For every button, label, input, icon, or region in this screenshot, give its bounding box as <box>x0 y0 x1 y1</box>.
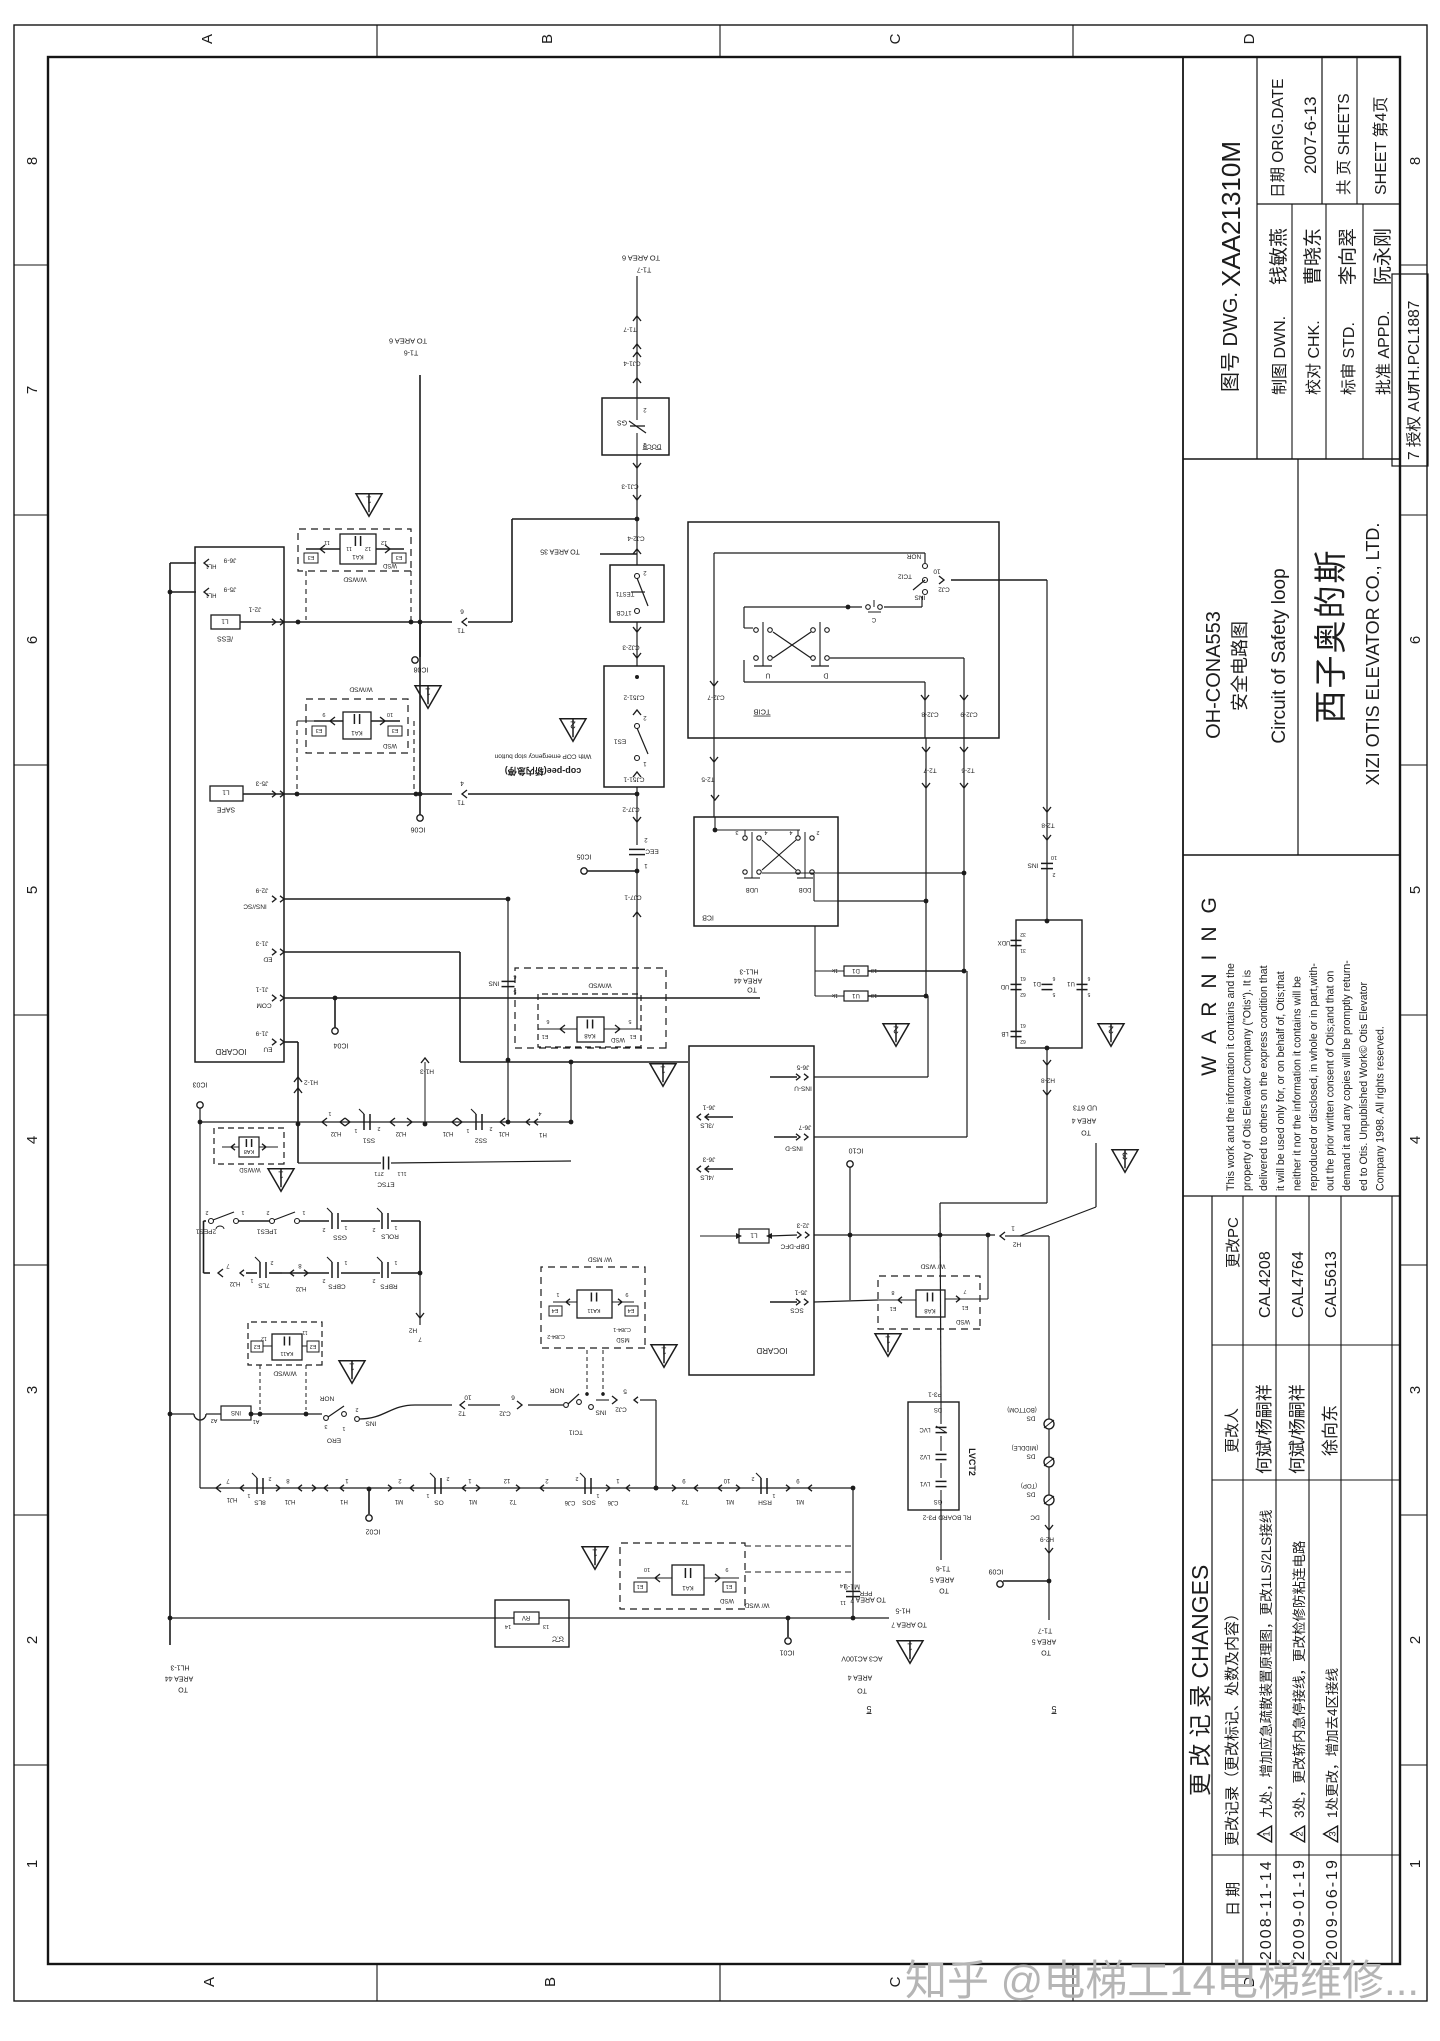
svg-text:ed to Otis. Unpublished W: ed to Otis. Unpublished Work© Otis Eleva… <box>1358 982 1370 1191</box>
relay KA1 grp2 pins E3 <box>314 720 343 722</box>
svg-text:5: 5 <box>623 1388 627 1395</box>
svg-text:E3: E3 <box>396 554 403 560</box>
svg-text:DS: DS <box>1026 1491 1036 1498</box>
svg-text:61: 61 <box>1020 1022 1026 1028</box>
connector 8 HJ1 <box>276 1485 280 1491</box>
wire bus to IOCARD2 <box>570 1062 572 1122</box>
svg-text:IC09: IC09 <box>989 1568 1004 1575</box>
svg-text:5: 5 <box>1087 991 1090 997</box>
svg-text:1: 1 <box>885 1334 891 1346</box>
connector 1 H1 <box>340 1485 344 1491</box>
svg-text:IC06: IC06 <box>411 826 426 833</box>
svg-text:CAL5613: CAL5613 <box>1323 1251 1340 1318</box>
svg-text:6: 6 <box>24 636 41 644</box>
warning triangle 1 (ac3) <box>897 1641 923 1664</box>
svg-text:ED: ED <box>263 956 272 963</box>
svg-text:KA1: KA1 <box>352 553 364 559</box>
svg-text:12: 12 <box>503 1477 510 1483</box>
svg-text:10: 10 <box>387 711 393 717</box>
svg-text:D1: D1 <box>852 967 860 973</box>
wire INS-U <box>814 1076 928 1078</box>
wire TCIB left CJ2-7 <box>713 553 715 738</box>
svg-text:D1: D1 <box>1033 980 1041 986</box>
svg-text:E4: E4 <box>552 1307 559 1313</box>
wire INS-D <box>814 1136 967 1138</box>
svg-text:TO AREA 6: TO AREA 6 <box>389 336 427 345</box>
terminal IC02 <box>368 1489 370 1514</box>
svg-text:H1-2: H1-2 <box>304 1079 318 1086</box>
wire to TO AREA 5 T1-7 <box>1048 1581 1050 1620</box>
svg-text:5: 5 <box>866 1704 871 1714</box>
wire T2-8 drop <box>1046 580 1048 921</box>
svg-text:XIZI OTIS ELEVATOR CO., LTD.: XIZI OTIS ELEVATOR CO., LTD. <box>1363 523 1383 786</box>
connector CJ2-5 <box>596 1399 609 1401</box>
svg-text:7: 7 <box>418 1336 422 1343</box>
pin J6-7 INS-D <box>796 1134 800 1140</box>
svg-text:2: 2 <box>205 1209 208 1215</box>
svg-text:AREA 5: AREA 5 <box>930 1576 955 1583</box>
svg-text:HJ1: HJ1 <box>442 1130 453 1136</box>
svg-text:3: 3 <box>1122 1150 1128 1162</box>
svg-text:M1: M1 <box>468 1498 477 1504</box>
svg-text:SAFE: SAFE <box>217 806 236 813</box>
svg-text:1: 1 <box>394 1224 397 1230</box>
wire to H2 pin7 <box>419 1273 421 1325</box>
wire EU riser <box>284 1041 298 1043</box>
svg-text:KA1: KA1 <box>682 1584 694 1590</box>
wire dashed drops grp1 <box>305 571 307 620</box>
svg-text:KA8: KA8 <box>584 1032 596 1038</box>
svg-text:11: 11 <box>346 545 352 551</box>
svg-text:it will be used only for, or o: it will be used only for, or on behalf o… <box>1275 971 1287 1191</box>
svg-text:D: D <box>823 672 828 679</box>
switch DS bottom <box>1044 1419 1054 1429</box>
svg-text:T2-8: T2-8 <box>1041 822 1055 829</box>
svg-text:DS: DS <box>1026 1453 1036 1460</box>
svg-text:DBP-DFC: DBP-DFC <box>780 1243 809 1250</box>
svg-text:E3: E3 <box>308 554 315 560</box>
svg-text:WSD: WSD <box>719 1597 734 1603</box>
svg-text:U: U <box>765 672 770 679</box>
warning triangle 1 (wsd grp2) <box>415 686 441 709</box>
terminal IC04 <box>334 998 336 1028</box>
contact GSS <box>337 1213 339 1229</box>
svg-text:6: 6 <box>1052 975 1055 981</box>
connector H1-2 <box>294 1077 302 1082</box>
svg-text:7LS: 7LS <box>258 1282 270 1289</box>
connector 9 M1 (right) <box>786 1485 790 1491</box>
switch 2PES1 <box>204 1220 207 1222</box>
svg-text:2: 2 <box>268 1475 271 1481</box>
svg-text:DOCB: DOCB <box>643 443 662 450</box>
svg-text:LV1: LV1 <box>919 1480 930 1486</box>
svg-text:L1: L1 <box>750 1232 758 1239</box>
svg-text:J2-9: J2-9 <box>255 887 268 894</box>
resistor U1 1k <box>844 991 868 1001</box>
svg-text:T2: T2 <box>681 1498 689 1504</box>
svg-text:H1: H1 <box>340 1498 348 1504</box>
svg-text:J5-3: J5-3 <box>255 780 268 787</box>
svg-text:4: 4 <box>24 1136 41 1144</box>
svg-text:2: 2 <box>266 1209 269 1215</box>
svg-text:TO: TO <box>1041 1649 1051 1656</box>
svg-text:B: B <box>539 34 556 44</box>
svg-text:2: 2 <box>322 1226 325 1232</box>
capacitor INS <box>502 986 515 988</box>
svg-text:更改PC: 更改PC <box>1225 1217 1242 1268</box>
svg-text:M1: M1 <box>394 1498 403 1504</box>
schematic layer (rotated 180) <box>165 253 1138 1714</box>
zone tick marks right band <box>376 25 378 57</box>
pin J6-9 HL1 <box>170 562 196 564</box>
wire HL1 branch vertical <box>169 563 171 1645</box>
svg-text:CJ2-8: CJ2-8 <box>921 711 939 718</box>
svg-text:T2: T2 <box>509 1498 517 1504</box>
svg-text:10: 10 <box>723 1477 730 1483</box>
svg-text:1: 1 <box>772 1492 775 1498</box>
svg-text:GS: GS <box>617 419 627 426</box>
node TO AREA 35 <box>600 553 637 555</box>
svg-text:1: 1 <box>278 1169 284 1181</box>
svg-text:HL1: HL1 <box>205 591 217 597</box>
svg-text:KA8: KA8 <box>244 1148 254 1154</box>
svg-text:6: 6 <box>1087 975 1090 981</box>
svg-text:ETSC: ETSC <box>377 1181 395 1188</box>
svg-text:2: 2 <box>377 1125 380 1131</box>
warning triangle 3 <box>1112 1150 1138 1173</box>
svg-text:HJ2: HJ2 <box>229 1280 240 1286</box>
connector 9 T2 (after CJ2-5) <box>672 1485 676 1491</box>
terminal IC01 <box>787 1618 789 1637</box>
warning triangle 1 (grp5) <box>339 1361 365 1384</box>
svg-text:CJ2-3: CJ2-3 <box>622 644 640 651</box>
svg-text:J5-1: J5-1 <box>794 1289 807 1296</box>
svg-text:2: 2 <box>24 1636 41 1644</box>
wire INS branch x508 <box>507 899 509 1122</box>
svg-text:/ESS: /ESS <box>217 635 233 642</box>
svg-text:4: 4 <box>789 829 792 835</box>
svg-text:UDX: UDX <box>998 939 1011 945</box>
svg-text:KA1: KA1 <box>351 729 363 735</box>
contact LVC <box>936 1432 947 1434</box>
svg-text:CJ7-1: CJ7-1 <box>624 894 642 901</box>
svg-text:CJ84-1: CJ84-1 <box>613 1326 631 1332</box>
svg-text:3: 3 <box>735 829 738 835</box>
terminal IC10 <box>847 1161 853 1167</box>
svg-text:CJ84-2: CJ84-2 <box>547 1333 565 1339</box>
svg-text:WSD: WSD <box>382 562 397 568</box>
svg-text:TO: TO <box>178 1686 188 1693</box>
svg-text:This work and the information: This work and the information it contain… <box>1225 963 1237 1191</box>
svg-text:RV: RV <box>522 1614 530 1620</box>
svg-text:1: 1 <box>250 1277 253 1283</box>
svg-text:更 改 记 录 CHANGES: 更 改 记 录 CHANGES <box>1187 1565 1213 1796</box>
wire T2-7 drop <box>925 738 927 996</box>
svg-text:SHEET 第4页: SHEET 第4页 <box>1372 97 1390 195</box>
warning triangle 2 (cop) <box>560 719 586 742</box>
svg-text:INS//SC: INS//SC <box>243 903 267 910</box>
svg-text:徐向东: 徐向东 <box>1321 1405 1340 1456</box>
svg-text:UD 6T3: UD 6T3 <box>1073 1104 1097 1111</box>
zone tick marks left band <box>376 1964 378 2001</box>
svg-text:AREA 44: AREA 44 <box>165 1675 194 1682</box>
svg-text:INS: INS <box>914 594 926 601</box>
svg-text:ES1: ES1 <box>613 738 626 745</box>
wire dashed drops grp2 <box>296 721 298 792</box>
svg-text:W/ MSD: W/ MSD <box>588 1256 612 1263</box>
svg-text:1k: 1k <box>832 967 838 973</box>
svg-text:日期 ORIG.DATE: 日期 ORIG.DATE <box>1269 79 1287 198</box>
svg-text:KA8: KA8 <box>924 1307 936 1313</box>
module LVCT2 box <box>908 1402 959 1510</box>
svg-text:2: 2 <box>893 1024 899 1036</box>
bus chain main <box>199 1414 201 1488</box>
svg-text:H1-5: H1-5 <box>895 1607 910 1614</box>
svg-text:2: 2 <box>489 1125 492 1131</box>
connector T2-10 CJ2-6 <box>460 1401 465 1409</box>
capacitor ETSC <box>298 1162 381 1164</box>
svg-text:LV2: LV2 <box>919 1453 930 1459</box>
connector arrow T1-6 pin6 <box>462 618 467 626</box>
svg-text:1: 1 <box>1011 1225 1015 1232</box>
IOCARD module box U1 <box>195 547 284 1062</box>
switch TEST1 1TCB <box>610 565 664 622</box>
svg-text:2: 2 <box>816 829 819 835</box>
svg-text:H2: H2 <box>408 1327 417 1334</box>
svg-text:W/ WSD: W/ WSD <box>920 1263 945 1270</box>
svg-text:知乎 @电梯工14电梯维修...: 知乎 @电梯工14电梯维修... <box>905 1957 1419 2004</box>
svg-text:A: A <box>201 1977 218 1987</box>
contact OS <box>440 1478 442 1494</box>
svg-text:LVCT2: LVCT2 <box>967 1448 977 1476</box>
svg-text:J6-1: J6-1 <box>702 1104 715 1111</box>
svg-text:CJ2-7: CJ2-7 <box>707 694 725 701</box>
svg-text:5: 5 <box>1051 1704 1056 1714</box>
svg-text:TEST1: TEST1 <box>615 590 634 596</box>
svg-text:H2-9: H2-9 <box>1040 1536 1054 1543</box>
svg-text:OH-CONA553: OH-CONA553 <box>1203 611 1225 739</box>
svg-text:10: 10 <box>644 1566 650 1572</box>
connector 1 M1 <box>462 1485 466 1491</box>
terminal IC09 <box>1047 1579 1052 1584</box>
svg-text:更改人: 更改人 <box>1224 1408 1241 1453</box>
contact INS (brake) <box>1041 868 1053 870</box>
relay WSD KA11 dashed group 5 (W/WSD) <box>248 1322 322 1365</box>
svg-text:2: 2 <box>355 1406 358 1412</box>
svg-text:6: 6 <box>546 1018 549 1024</box>
svg-text:property of Otis Elevator Comp: property of Otis Elevator Company ("Otis… <box>1242 970 1254 1191</box>
svg-text:H2: H2 <box>1012 1241 1021 1248</box>
contact RBFS <box>387 1262 389 1278</box>
svg-text:11: 11 <box>302 1329 307 1335</box>
svg-text:M1: M1 <box>725 1498 734 1504</box>
switch 1PES1 <box>270 1219 275 1224</box>
contact DDB <box>796 836 800 840</box>
svg-text:RSH: RSH <box>758 1499 772 1506</box>
svg-text:INS: INS <box>488 980 500 987</box>
svg-text:1: 1 <box>328 1110 331 1116</box>
contact SS2 <box>481 1114 483 1130</box>
svg-text:CJ2: CJ2 <box>615 1406 627 1413</box>
svg-text:1: 1 <box>425 686 431 698</box>
svg-text:AC3 AC100V: AC3 AC100V <box>841 1655 883 1662</box>
contact LB <box>1011 1036 1022 1038</box>
svg-text:IC03: IC03 <box>193 1081 208 1088</box>
svg-text:6: 6 <box>511 1394 515 1401</box>
svg-text:J2-1: J2-1 <box>248 606 261 613</box>
svg-text:E3: E3 <box>316 727 323 733</box>
pin J6-5 INS-U <box>796 1074 800 1080</box>
svg-text:2007-6-13: 2007-6-13 <box>1301 96 1320 174</box>
svg-text:12: 12 <box>381 539 387 545</box>
pin J5-1 SCS <box>796 1299 800 1305</box>
svg-text:2: 2 <box>575 1475 578 1481</box>
svg-text:(BOTTOM): (BOTTOM) <box>1007 1406 1037 1412</box>
module ICB box <box>694 817 838 926</box>
svg-text:WSD: WSD <box>610 1036 625 1042</box>
svg-text:RL BOARD P3-2: RL BOARD P3-2 <box>922 1514 971 1521</box>
svg-text:1: 1 <box>247 1492 250 1498</box>
module brake box (UDX/UD/LB D1 U1) <box>1016 920 1082 1048</box>
svg-text:1: 1 <box>596 1492 599 1498</box>
switch DOCB GS <box>602 398 669 455</box>
svg-text:HJ1: HJ1 <box>226 1496 237 1502</box>
contact LV2 <box>936 1459 947 1461</box>
wire to TO AREA 5 T1-6 <box>940 1510 942 1560</box>
svg-text:GSS: GSS <box>332 1234 346 1241</box>
svg-text:1: 1 <box>354 1127 357 1133</box>
IOCARD module box U2 <box>689 1046 814 1375</box>
svg-text:TO: TO <box>1081 1129 1091 1136</box>
svg-text:T1-6: T1-6 <box>936 1565 951 1572</box>
wire LVCT2 inner <box>940 1402 942 1424</box>
contact D1 (brake) <box>1042 989 1053 991</box>
svg-text:CBFS: CBFS <box>328 1283 346 1290</box>
svg-text:8: 8 <box>24 157 41 165</box>
contact LV1 <box>936 1486 947 1488</box>
switch TCI2 NOR/INS selector <box>923 564 928 569</box>
svg-text:U1: U1 <box>1067 980 1075 986</box>
svg-text:Circuit of Safety loop: Circuit of Safety loop <box>1269 568 1290 743</box>
svg-text:1: 1 <box>556 1291 559 1297</box>
switch DS middle <box>1044 1457 1054 1467</box>
switch ERO NOR/INS <box>324 1416 329 1421</box>
svg-text:T2-6: T2-6 <box>961 767 975 774</box>
svg-text:P3-1: P3-1 <box>928 1391 942 1398</box>
svg-text:AREA 5: AREA 5 <box>1032 1638 1057 1645</box>
svg-text:CJ7-2: CJ7-2 <box>622 806 640 813</box>
svg-text:12: 12 <box>365 545 371 551</box>
svg-text:LB: LB <box>1001 1030 1008 1036</box>
svg-text:校对 CHK.: 校对 CHK. <box>1305 320 1323 395</box>
svg-text:/4LS: /4LS <box>700 1174 714 1181</box>
bus G.C <box>170 1617 514 1619</box>
svg-text:CJ6: CJ6 <box>607 1499 618 1505</box>
wire DS column <box>1048 1236 1050 1581</box>
svg-text:5: 5 <box>1407 886 1424 894</box>
svg-text:W/WSD: W/WSD <box>239 1166 261 1172</box>
svg-text:NOR: NOR <box>319 1395 334 1402</box>
svg-text:KA11: KA11 <box>587 1307 600 1313</box>
svg-text:UDB: UDB <box>746 886 759 892</box>
svg-text:九处，增加应急疏散装置原理图，更改1LS/2LS接线: 九处，增加应急疏散装置原理图，更改1LS/2LS接线 <box>1258 1510 1274 1818</box>
wire PFR vertical <box>852 1488 854 1618</box>
svg-text:E2: E2 <box>254 1343 261 1349</box>
warning triangle 2 right of brake box <box>1098 1024 1124 1047</box>
labels H1 bus left arrows <box>322 1118 327 1126</box>
svg-text:3处，更改轿内急停接线，更改检修防粘连电路: 3处，更改轿内急停接线，更改检修防粘连电路 <box>1291 1540 1307 1818</box>
svg-text:IOCARD: IOCARD <box>215 1047 246 1056</box>
pin J1-3 ED <box>272 949 276 955</box>
svg-text:UD: UD <box>1000 983 1009 989</box>
svg-text:H1-3: H1-3 <box>420 1068 434 1075</box>
svg-text:J6-3: J6-3 <box>702 1156 715 1163</box>
svg-text:INS: INS <box>365 1420 377 1427</box>
svg-text:CAL4208: CAL4208 <box>1257 1251 1274 1318</box>
svg-text:/3LS: /3LS <box>700 1122 714 1129</box>
warning triangle 1 (wsd grp1) <box>356 494 382 517</box>
svg-text:1: 1 <box>661 1345 667 1357</box>
wire INS//SC <box>284 898 508 900</box>
svg-text:COM: COM <box>256 1002 271 1009</box>
svg-text:ICB: ICB <box>702 914 714 921</box>
svg-text:IC08: IC08 <box>414 666 429 673</box>
wire TCIB crossover X <box>773 632 811 658</box>
switch TCI1 <box>564 1403 569 1408</box>
svg-text:日 期: 日 期 <box>1225 1882 1242 1916</box>
svg-text:NOR: NOR <box>549 1387 564 1394</box>
svg-text:TO: TO <box>747 986 757 993</box>
svg-text:10: 10 <box>464 1394 472 1401</box>
svg-text:2T1: 2T1 <box>374 1170 383 1176</box>
svg-text:U1: U1 <box>852 992 860 998</box>
svg-text:INS: INS <box>1027 862 1039 869</box>
svg-text:2: 2 <box>570 719 576 731</box>
svg-text:ERO: ERO <box>327 1437 341 1444</box>
svg-text:更改记录（更改标记、处数及内容）: 更改记录（更改标记、处数及内容） <box>1224 1606 1241 1846</box>
contact UDX <box>1011 945 1022 947</box>
svg-text:13: 13 <box>543 1623 549 1629</box>
svg-text:HJ1: HJ1 <box>498 1130 509 1136</box>
svg-text:1: 1 <box>342 1425 345 1431</box>
pin J6-1 /3LS <box>697 1114 701 1120</box>
bus H2 <box>814 1234 995 1236</box>
svg-text:SS2: SS2 <box>474 1137 487 1144</box>
svg-text:E3: E3 <box>392 727 399 733</box>
svg-text:5: 5 <box>24 886 41 894</box>
svg-text:T2-7: T2-7 <box>923 767 937 774</box>
svg-text:HJ2: HJ2 <box>330 1130 341 1136</box>
svg-text:J6-5: J6-5 <box>796 1064 809 1071</box>
wire COM <box>284 997 760 999</box>
svg-text:CJ51-2: CJ51-2 <box>623 694 644 701</box>
svg-text:31: 31 <box>1020 947 1026 953</box>
wire T1-6 vertical <box>419 375 421 815</box>
svg-text:E1: E1 <box>630 1033 637 1039</box>
svg-text:B: B <box>542 1977 559 1987</box>
svg-text:共 页 SHEETS: 共 页 SHEETS <box>1335 93 1353 195</box>
switch ES1 cop emergency stop <box>604 666 664 787</box>
wire ES1 to SAFE bus <box>636 787 638 794</box>
svg-text:5: 5 <box>628 1018 631 1024</box>
warning triangle 1 (grp6) <box>582 1547 608 1570</box>
pin J5-9 HL1 <box>170 591 196 593</box>
warning triangle 1 (grp3) <box>268 1169 294 1192</box>
svg-text:W/WSD: W/WSD <box>588 982 611 989</box>
contact D (TCIB) <box>811 628 816 633</box>
contact CBFS <box>337 1262 339 1278</box>
svg-text:WSD: WSD <box>382 742 397 748</box>
